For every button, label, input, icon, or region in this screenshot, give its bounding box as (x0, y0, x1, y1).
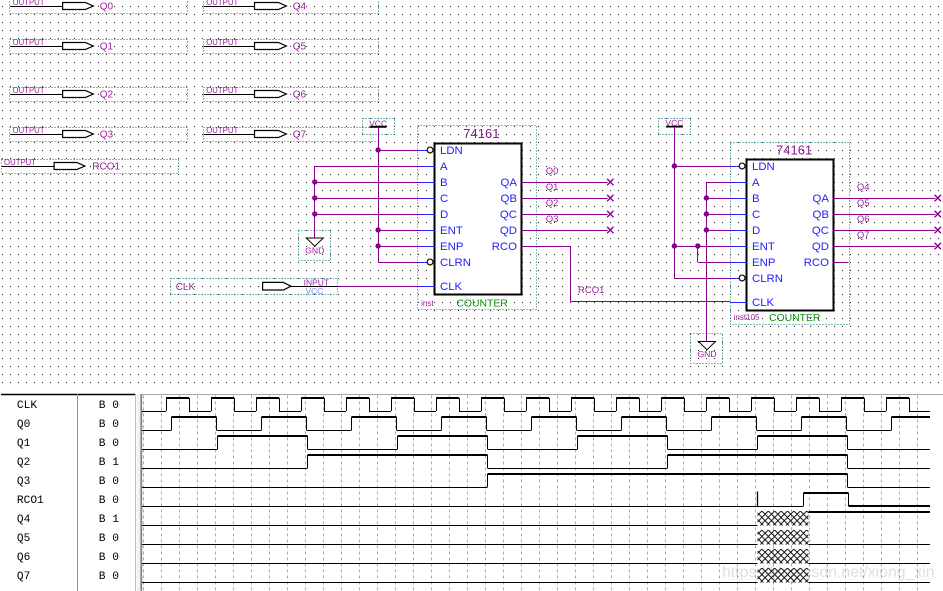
svg-text:OUTPUT: OUTPUT (13, 38, 45, 47)
svg-text:Q4: Q4 (17, 514, 31, 526)
svg-text:Q6: Q6 (17, 552, 30, 564)
svg-text:Q5: Q5 (293, 42, 307, 53)
svg-text:74161: 74161 (463, 126, 499, 141)
svg-text:Q5: Q5 (857, 198, 870, 209)
svg-text:Q7: Q7 (857, 230, 870, 241)
svg-text:COUNTER: COUNTER (456, 299, 508, 310)
svg-text:RCO: RCO (804, 257, 829, 269)
svg-text:C: C (440, 193, 448, 205)
svg-text:ENP: ENP (440, 241, 463, 253)
svg-text:Q1: Q1 (17, 438, 31, 450)
svg-text:LDN: LDN (752, 161, 775, 173)
svg-text:Q4: Q4 (293, 2, 307, 13)
svg-text:LDN: LDN (440, 145, 463, 157)
svg-text:CLK: CLK (440, 281, 463, 293)
svg-text:Q7: Q7 (17, 571, 30, 583)
svg-text:CLRN: CLRN (752, 273, 783, 285)
svg-text:Q4: Q4 (857, 182, 870, 193)
svg-text:OUTPUT: OUTPUT (13, 86, 45, 95)
svg-text:QA: QA (813, 193, 830, 205)
svg-text:ENT: ENT (440, 225, 463, 237)
svg-text:A: A (440, 161, 448, 173)
svg-text:B 0: B 0 (99, 571, 119, 583)
svg-text:RCO1: RCO1 (92, 162, 120, 173)
svg-text:OUTPUT: OUTPUT (206, 0, 238, 7)
svg-text:GND: GND (697, 349, 716, 359)
svg-text:Q0: Q0 (17, 419, 31, 431)
svg-text:GND: GND (305, 245, 324, 255)
svg-text:Q3: Q3 (17, 476, 30, 488)
svg-text:inst: inst (421, 299, 434, 308)
svg-text:B 0: B 0 (99, 419, 119, 431)
svg-text:CLRN: CLRN (440, 257, 471, 269)
svg-text:CLK: CLK (17, 400, 37, 412)
svg-text:D: D (752, 225, 760, 237)
svg-text:Q2: Q2 (546, 198, 559, 209)
svg-text:Q7: Q7 (293, 130, 307, 141)
svg-text:CLK: CLK (176, 282, 196, 293)
svg-text:B 0: B 0 (99, 476, 119, 488)
svg-text:OUTPUT: OUTPUT (13, 0, 45, 7)
svg-text:B 1: B 1 (99, 457, 119, 469)
svg-text:D: D (440, 209, 448, 221)
svg-text:Q3: Q3 (100, 130, 114, 141)
svg-text:COUNTER: COUNTER (769, 313, 821, 324)
svg-text:QD: QD (812, 241, 829, 253)
svg-text:OUTPUT: OUTPUT (206, 126, 238, 135)
svg-text:OUTPUT: OUTPUT (13, 126, 45, 135)
svg-text:QA: QA (501, 177, 518, 189)
svg-text:B 0: B 0 (99, 552, 119, 564)
svg-text:A: A (752, 177, 760, 189)
svg-text:RCO1: RCO1 (17, 495, 44, 507)
svg-text:Q3: Q3 (546, 214, 559, 225)
svg-text:Q6: Q6 (857, 214, 870, 225)
svg-text:QD: QD (500, 225, 517, 237)
svg-text:https://blog.csdn.net/xiong_xi: https://blog.csdn.net/xiong_xin (722, 564, 935, 581)
svg-text:B 0: B 0 (99, 438, 119, 450)
svg-text:Q1: Q1 (100, 42, 114, 53)
svg-text:B 0: B 0 (99, 400, 119, 412)
svg-text:RCO: RCO (492, 241, 517, 253)
svg-text:B 0: B 0 (99, 533, 119, 545)
svg-text:OUTPUT: OUTPUT (206, 86, 238, 95)
svg-text:B: B (440, 177, 448, 189)
svg-text:QC: QC (812, 225, 829, 237)
svg-text:ENP: ENP (752, 257, 775, 269)
svg-text:B 0: B 0 (99, 495, 119, 507)
svg-text:inst105: inst105 (734, 313, 760, 322)
svg-text:OUTPUT: OUTPUT (4, 158, 36, 167)
svg-text:Q2: Q2 (17, 457, 30, 469)
svg-text:C: C (752, 209, 760, 221)
svg-text:QB: QB (813, 209, 829, 221)
svg-text:B: B (752, 193, 760, 205)
svg-text:Q0: Q0 (100, 2, 114, 13)
svg-text:Q1: Q1 (546, 182, 559, 193)
svg-text:74161: 74161 (776, 142, 812, 157)
svg-text:ENT: ENT (752, 241, 775, 253)
svg-text:Q2: Q2 (100, 90, 114, 101)
svg-text:CLK: CLK (752, 297, 775, 309)
svg-text:Q5: Q5 (17, 533, 30, 545)
svg-text:QC: QC (500, 209, 517, 221)
svg-text:Q0: Q0 (546, 166, 559, 177)
svg-text:Q6: Q6 (293, 90, 307, 101)
svg-text:QB: QB (501, 193, 517, 205)
svg-text:VCC: VCC (306, 286, 324, 296)
svg-text:OUTPUT: OUTPUT (206, 38, 238, 47)
svg-text:B 1: B 1 (99, 514, 119, 526)
svg-text:RCO1: RCO1 (578, 285, 604, 296)
